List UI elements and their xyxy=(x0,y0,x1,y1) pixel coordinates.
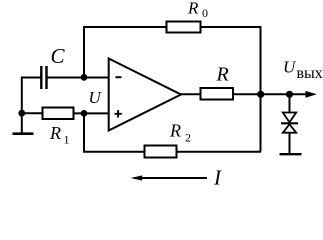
wire from left rail to capacitor xyxy=(21,77,41,79)
svg-text:C: C xyxy=(51,44,66,68)
wire rail to R1 xyxy=(22,112,42,114)
node load junction dot xyxy=(286,91,293,98)
wire op-amp output to R xyxy=(180,93,200,95)
pin + (noninverting input mark) xyxy=(115,113,122,115)
svg-text:2: 2 xyxy=(185,131,191,145)
wire diode pair down to terminal xyxy=(289,133,291,154)
svg-text:R: R xyxy=(187,0,199,18)
svg-text:R: R xyxy=(49,123,61,143)
node junction dot rail to R1 xyxy=(18,110,25,117)
svg-text:R: R xyxy=(169,121,181,141)
wire R to output node xyxy=(233,93,261,95)
wire left rail vertical xyxy=(21,77,23,134)
ground xyxy=(13,132,34,135)
pin - (inverting input mark) xyxy=(116,76,122,78)
svg-text:вых: вых xyxy=(297,65,323,82)
wire output node to load branch xyxy=(261,93,306,95)
wire noninverting node down to bottom feedback xyxy=(83,113,85,151)
output terminal arrow xyxy=(306,91,317,98)
wire top feedback horizontal run xyxy=(83,26,262,28)
terminal bar bottom of load xyxy=(280,153,302,155)
diode cathode bar (shared) xyxy=(281,122,298,124)
svg-text:R: R xyxy=(216,64,229,86)
wire load node down to diode pair xyxy=(289,94,291,113)
svg-text:I: I xyxy=(213,166,222,190)
diode VD2 (lower, cathode up) xyxy=(283,124,296,132)
wire right vertical from top corner down to output node and to bottom corner xyxy=(260,26,262,152)
svg-text:U: U xyxy=(89,88,103,107)
svg-text:0: 0 xyxy=(202,6,208,20)
node output junction dot xyxy=(257,91,264,98)
wire bottom feedback horizontal run xyxy=(83,151,261,153)
resistor R xyxy=(201,88,234,100)
wire capacitor to inverting input of op-amp xyxy=(48,77,110,79)
svg-text:U: U xyxy=(283,58,297,77)
op-amp U1 xyxy=(109,59,181,131)
current direction arrow I xyxy=(134,177,207,179)
node junction dot at inverting input xyxy=(81,74,88,81)
diode VD1 (upper, cathode down) xyxy=(283,113,296,123)
resistor R1 xyxy=(43,108,74,120)
svg-text:1: 1 xyxy=(64,133,70,147)
wire R1 to noninverting input xyxy=(74,112,110,114)
node junction dot at noninverting input xyxy=(81,110,88,117)
wire top feedback: left corner vertical from inverting node up xyxy=(83,27,85,78)
resistor R2 xyxy=(145,146,177,158)
capacitor C xyxy=(40,66,42,89)
resistor R0 xyxy=(167,22,201,33)
